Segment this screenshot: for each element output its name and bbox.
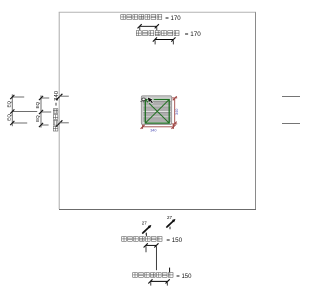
wire big square bottom edge	[59, 209, 256, 211]
svg-text:= 340: = 340	[54, 90, 60, 106]
label pipe height half = 150 (row 1)	[122, 237, 183, 245]
label grate width = 340 (vertical)	[53, 90, 60, 131]
wire EQ dim A line	[11, 94, 13, 126]
svg-text:EQ: EQ	[6, 114, 11, 121]
wire witness line to row 2	[155, 246, 157, 270]
svg-text:27: 27	[167, 215, 173, 220]
svg-text:EQ: EQ	[35, 115, 40, 122]
wire EQ dim B extension bottom	[41, 124, 49, 126]
label grate length half = 170 (line 1)	[121, 15, 181, 22]
arrow mark right	[166, 219, 175, 229]
EQ label B2	[35, 115, 40, 122]
svg-text:= 170: = 170	[185, 31, 201, 38]
grate cross brace X	[145, 100, 169, 124]
wire temp dim right	[172, 96, 177, 125]
wire EQ dim B extension top	[41, 97, 49, 99]
svg-text:340: 340	[175, 109, 179, 115]
node reference plane right lower	[282, 123, 300, 125]
svg-text:340: 340	[150, 129, 156, 133]
wire left dim witness top	[59, 95, 69, 97]
label 340 right (blue)	[175, 109, 179, 115]
wire EQ dim A extension top	[12, 96, 24, 98]
svg-text:EQ: EQ	[6, 100, 11, 107]
wire EQ dim A extension mid	[12, 111, 37, 113]
label grate length half = 170 (line 2)	[136, 31, 201, 39]
wire EQ dim B extension mid	[41, 111, 51, 113]
wire big square top edge	[59, 11, 256, 13]
wire top dim 1	[138, 24, 159, 30]
wire big square left edge / vertical dimension line	[58, 12, 60, 209]
node constraint circle	[140, 98, 145, 102]
grate slats	[143, 98, 171, 123]
svg-text:27: 27	[142, 221, 148, 226]
EQ label A1	[6, 100, 11, 107]
arrow mark left	[142, 225, 151, 235]
wire left dim witness bottom	[59, 122, 69, 124]
wire temp dim bottom	[141, 125, 176, 129]
node EQ dim A ticks	[10, 95, 14, 125]
node EQ dim B ticks	[39, 96, 43, 127]
node left dim ticks	[56, 94, 62, 127]
mouse cursor	[148, 96, 155, 104]
svg-text:= 150: = 150	[166, 237, 182, 244]
svg-text:EQ: EQ	[35, 101, 40, 108]
EQ label B1	[35, 101, 40, 108]
node reference plane right upper	[282, 96, 300, 98]
label pipe height half = 150 (row 2)	[133, 273, 192, 281]
wire top dim 2	[153, 37, 176, 44]
EQ label A2	[6, 114, 11, 121]
wire bottom dim 1	[144, 233, 159, 252]
wire bottom dim 2	[148, 268, 169, 286]
wire EQ dim B line	[40, 95, 42, 127]
wire big square right edge	[255, 12, 257, 209]
svg-text:= 170: = 170	[165, 15, 181, 22]
grate base plate	[141, 96, 171, 125]
wire EQ dim A extension bottom	[12, 122, 27, 124]
grate green frame	[145, 100, 169, 124]
svg-text:= 150: = 150	[176, 274, 192, 280]
